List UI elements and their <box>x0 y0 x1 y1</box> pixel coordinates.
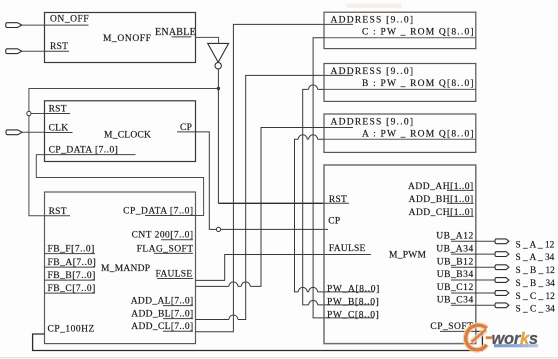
underline CNT 200 <box>161 239 193 241</box>
wire RST net to M_PWM <box>218 202 324 204</box>
hop ADD_AL over C-bus <box>229 282 238 287</box>
pin stub ENABLE underline <box>172 36 192 38</box>
svg-text:S _ A _ 12: S _ A _ 12 <box>516 240 555 250</box>
pin stub PW_C <box>324 317 374 319</box>
divider ROM B <box>324 88 476 90</box>
svg-text:UB_B34: UB_B34 <box>437 270 474 280</box>
underline ADD_AL <box>163 305 193 307</box>
output pin S_A_34 <box>495 252 509 257</box>
svg-text:RST: RST <box>49 104 67 114</box>
svg-text:B : PW _ ROM Q[8..0]: B : PW _ ROM Q[8..0] <box>362 79 475 89</box>
underline+wire UB_B12 <box>451 266 495 268</box>
svg-text:M_PWM: M_PWM <box>389 250 426 260</box>
wire ADD_BL to ROM B address <box>196 75 325 319</box>
input pin RST <box>6 49 22 54</box>
hop Q_A over Q_C vertical (top) <box>309 135 318 140</box>
wire CP output <box>196 132 325 230</box>
pin stub FB_B <box>45 279 96 281</box>
svg-text:S _ A _ 34: S _ A _ 34 <box>516 253 555 263</box>
pin stub CP_DATA <box>45 154 136 156</box>
wire Q_C to PW_C <box>313 38 324 318</box>
underline ADD_AH <box>447 189 474 191</box>
wire RST pin to block <box>22 50 45 52</box>
svg-text:UB_A34: UB_A34 <box>436 244 474 254</box>
svg-text:ADDRESS [9..0]: ADDRESS [9..0] <box>331 117 415 127</box>
svg-text:FB_C[7..0]: FB_C[7..0] <box>48 284 96 294</box>
pin stub ADDRESS A <box>324 127 353 129</box>
underline+wire UB_A34 <box>451 253 495 255</box>
pin stub PW_A <box>324 291 374 293</box>
pin stub RST <box>45 113 71 115</box>
underline ADD_CL <box>163 330 193 332</box>
node junction circle at M_CLOCK RST <box>27 111 31 115</box>
inverter bubble <box>215 62 221 68</box>
svg-text:FLAG_SOFT: FLAG_SOFT <box>137 244 194 254</box>
svg-text:FAULSE: FAULSE <box>329 244 366 254</box>
svg-text:S _ B _ 12: S _ B _ 12 <box>516 266 556 276</box>
e-works logo: orange e swoosh <box>466 325 487 350</box>
divider ROM C <box>324 37 476 39</box>
pin stub PW_B <box>324 304 374 306</box>
underline ADD_BL <box>163 318 193 320</box>
svg-text:UB_C12: UB_C12 <box>437 283 474 293</box>
svg-text:UB_C34: UB_C34 <box>437 296 474 306</box>
underline FAULSE <box>157 278 193 280</box>
wire CLK pin to block <box>22 131 44 133</box>
underline ADD_CH <box>447 215 474 217</box>
wire ADD_AL to ROM A address <box>196 128 325 287</box>
block ROM A <box>324 114 476 152</box>
svg-text:C : PW _ ROM Q[8..0]: C : PW _ ROM Q[8..0] <box>362 27 475 37</box>
wire inverted-enable vertical rail <box>217 69 219 203</box>
svg-text:M_CLOCK: M_CLOCK <box>104 131 151 141</box>
svg-text:UB_A12: UB_A12 <box>436 232 474 242</box>
pin stub CLK <box>45 132 73 134</box>
hop ADD_BL over C-bus <box>229 315 238 320</box>
pin stub ADDRESS C <box>324 23 353 25</box>
wire Q_A to PW_A <box>295 139 325 292</box>
svg-text:PW_C[8..0]: PW_C[8..0] <box>327 310 379 320</box>
junction dot <box>217 87 220 90</box>
hop Q_A over Q_B vertical (top) <box>298 135 307 140</box>
pin stub FB_F <box>45 253 96 255</box>
pin stub ADDRESS B <box>324 74 353 76</box>
input pin CLK <box>6 130 22 135</box>
underline+wire UB_B34 <box>451 279 495 281</box>
hop PW_A over Q_C vertical (bottom) <box>309 287 318 291</box>
svg-text:S _ B _ 34: S _ B _ 34 <box>516 279 556 289</box>
block M_MANDP <box>45 192 196 344</box>
wire CP_100HZ / CP_SOFT bottom net <box>33 331 483 350</box>
node junction circle on CP wire <box>216 227 220 231</box>
output pin S_C_12 <box>495 291 509 296</box>
wire Q_B to PW_B <box>303 89 324 305</box>
hop PW_A over Q_B vertical (bottom) <box>298 287 307 291</box>
hop Q_B over Q_C vertical (top) <box>309 85 318 90</box>
svg-text:PW_A[8..0]: PW_A[8..0] <box>327 284 380 294</box>
underline+wire UB_C34 <box>451 304 495 306</box>
svg-text:M_ONOFF: M_ONOFF <box>103 34 152 44</box>
scan artifact bottom line <box>0 357 558 359</box>
input pin ON_OFF <box>6 23 22 28</box>
svg-text:M_MANDP: M_MANDP <box>101 264 150 274</box>
pin stub FB_C <box>45 292 96 294</box>
block ROM B <box>324 64 476 102</box>
svg-text:ENABLE: ENABLE <box>155 27 196 38</box>
wire ADD_CL to ROM C address <box>196 24 325 331</box>
pin stub RST <box>45 215 71 217</box>
pin stub FB_A <box>45 266 96 268</box>
block ROM C <box>324 12 476 48</box>
pin stub CP_DATA out underline <box>145 215 196 217</box>
svg-text:CLK: CLK <box>49 123 69 133</box>
svg-text:S _ C _ 12: S _ C _ 12 <box>516 292 556 302</box>
output pin S_B_34 <box>495 278 509 283</box>
svg-text:CP_DATA [7..0]: CP_DATA [7..0] <box>49 145 119 155</box>
svg-text:A : PW _ ROM Q[8..0]: A : PW _ ROM Q[8..0] <box>362 129 475 139</box>
wire FAULSE M_MANDP to M_PWM <box>196 255 325 281</box>
divider ROM A <box>324 138 476 140</box>
pin stub RST <box>45 50 70 52</box>
svg-text:FB_F[7..0]: FB_F[7..0] <box>48 244 95 254</box>
e-works logo: blue underline bar <box>494 344 538 347</box>
inverter (NOT gate) <box>208 43 229 62</box>
wire ENABLE to inverter <box>196 37 219 43</box>
svg-text:S _ C _ 34: S _ C _ 34 <box>516 304 556 314</box>
svg-text:CNT 200[7..0]: CNT 200[7..0] <box>132 231 194 241</box>
hop PW_B over Q_C vertical (bottom) <box>309 300 318 305</box>
pin stub FAULSE <box>324 254 371 256</box>
e-works logo: orange dash <box>486 336 492 339</box>
block M_ONOFF <box>45 13 196 63</box>
underline+wire UB_C12 <box>451 292 495 294</box>
e-works logo: e diagonal bar <box>472 330 487 343</box>
output pin S_A_12 <box>495 239 509 244</box>
wire to M_CLOCK RST <box>31 113 45 115</box>
svg-text:FB_B[7..0]: FB_B[7..0] <box>48 271 96 281</box>
svg-text:CP: CP <box>328 216 340 226</box>
output pin S_C_34 <box>495 303 509 308</box>
svg-text:FB_A[7..0]: FB_A[7..0] <box>48 258 97 268</box>
scan artifact top smudge <box>346 4 402 9</box>
svg-text:CP_100HZ: CP_100HZ <box>48 325 95 335</box>
pin stub RST <box>324 202 349 204</box>
underline ADD_BH <box>447 202 474 204</box>
svg-text:CP: CP <box>180 123 192 133</box>
hop ADD_AL over B-bus <box>241 282 250 287</box>
svg-text:ON_OFF: ON_OFF <box>50 15 89 25</box>
block M_PWM <box>324 165 476 344</box>
underline FLAG_SOFT <box>154 252 193 254</box>
wire CP_DATA feedback loop <box>36 155 203 216</box>
block M_CLOCK <box>45 101 196 162</box>
pin stub CP <box>324 228 328 230</box>
svg-text:UB_B12: UB_B12 <box>437 257 474 267</box>
wire ON_OFF pin to block <box>22 24 45 26</box>
pin stub CP underline <box>177 131 196 133</box>
output pin S_B_12 <box>495 265 509 270</box>
underline+wire UB_A12 <box>451 240 495 242</box>
svg-text:PW_B[8..0]: PW_B[8..0] <box>327 297 379 307</box>
e-works logo: light halo of orange e <box>466 325 487 350</box>
wire rail to left (RST net) <box>29 89 219 216</box>
pin stub ON_OFF <box>45 24 89 26</box>
underline CP_SOFT <box>440 330 476 332</box>
